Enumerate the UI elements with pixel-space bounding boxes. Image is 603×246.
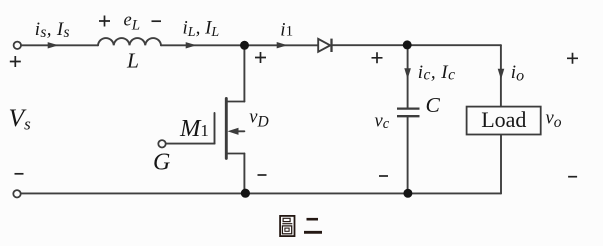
wire drain (node A down to MOSFET) [243, 45, 245, 101]
svg-text:G: G [153, 150, 170, 176]
terminal + (top left source) [14, 42, 21, 49]
wire top rail left segment [21, 44, 98, 46]
transistor M1 arrow [228, 128, 239, 135]
wire capacitor branch lower [407, 116, 409, 193]
svg-text:L: L [126, 49, 139, 73]
plus sign V_s [10, 56, 21, 67]
arrow i_s [48, 42, 59, 48]
plus sign e_L [99, 16, 110, 27]
svg-text:C: C [426, 93, 441, 117]
node D (cap bottom/bottom rail junction) [403, 189, 412, 198]
caption 二 (two) [304, 219, 322, 232]
gate terminal G [158, 140, 165, 147]
caption 圖 (figure) [280, 216, 294, 236]
minus sign e_L [152, 20, 162, 22]
wire diode cathode to output corner [332, 44, 501, 46]
arrow i_L [186, 42, 197, 48]
minus sign v_c [379, 175, 388, 177]
wire Load bottom down to bottom rail [500, 135, 502, 194]
minus sign v_D [258, 174, 267, 176]
plus sign v_D [255, 52, 266, 63]
wire source (MOSFET down to bottom rail) [243, 154, 245, 194]
wire gate lead [166, 143, 215, 145]
diode D1 [318, 39, 331, 52]
wire capacitor branch upper [407, 45, 409, 109]
wire output corner down to Load top [500, 45, 502, 106]
node A (inductor/diode/drain junction) [240, 41, 249, 50]
arrow i_c [404, 68, 411, 79]
node C (source/bottom rail junction) [241, 189, 250, 198]
wire bottom rail [21, 192, 501, 194]
plus sign v_c [372, 52, 383, 63]
minus sign v_o [568, 176, 577, 178]
load box [467, 107, 541, 135]
node B (diode/cap/load junction) [403, 40, 412, 49]
terminal - (bottom left source) [13, 190, 20, 197]
inductor L coil [98, 38, 161, 45]
wire inductor to diode anode (through node A) [161, 44, 318, 46]
arrow i_1 [277, 42, 288, 48]
transistor M1 (MOSFET body) [215, 98, 245, 158]
arrow i_o [498, 69, 505, 80]
minus sign V_s [15, 173, 24, 175]
plus sign v_o [567, 53, 578, 64]
capacitor C plates [397, 109, 420, 117]
svg-text:Load: Load [481, 107, 526, 132]
